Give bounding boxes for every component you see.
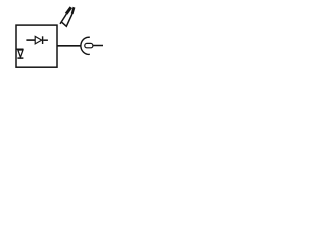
LED D1 anode wire (26, 39, 35, 41)
LED D1 cathode wire (43, 39, 48, 41)
emission arrow 2 head (72, 7, 74, 14)
LED D1 cathode bar (42, 36, 44, 44)
package box (16, 25, 57, 67)
output wire to connector (57, 45, 81, 47)
emission arrow 2 tail (61, 13, 72, 26)
photodiode D2 cathode bar (17, 57, 23, 59)
connector stub lead (93, 45, 103, 47)
emission arrow 1 shaft (60, 14, 66, 24)
connector ferrule slot (85, 43, 93, 47)
photodiode D2 top connection wire (16, 48, 24, 50)
emission arrow 1 head (66, 7, 71, 14)
connector shell arc (81, 37, 90, 54)
photodiode D2 triangle (18, 50, 23, 57)
LED D1 triangle (35, 36, 42, 44)
